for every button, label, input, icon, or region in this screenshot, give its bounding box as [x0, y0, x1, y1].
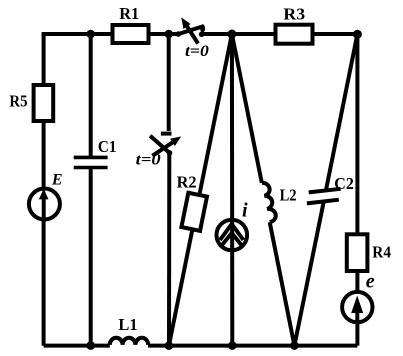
wire R2 diagonal — [169, 34, 232, 346]
svg-text:R1: R1 — [119, 4, 139, 23]
svg-text:R5: R5 — [9, 91, 27, 110]
node dot bottom C1 — [86, 341, 95, 350]
svg-text:R4: R4 — [372, 242, 391, 261]
current source i — [217, 199, 249, 250]
wire C1 branch lower — [89, 168, 93, 346]
wire C2 diagonal upper — [326, 34, 357, 189]
node dot top switch branch — [164, 30, 173, 39]
svg-text:R2: R2 — [177, 173, 197, 192]
svg-text:C1: C1 — [98, 137, 117, 156]
node dot bottom L2/C2 — [290, 341, 299, 350]
source E — [29, 171, 63, 219]
wire top between switch and node A — [202, 32, 278, 36]
wire top left segment — [42, 32, 113, 36]
svg-text:t=0: t=0 — [185, 43, 209, 60]
wire top between R1 and switch — [149, 32, 179, 36]
wire right rail — [355, 34, 359, 346]
resistor R3 — [276, 5, 313, 44]
resistor R4 — [347, 234, 392, 271]
node dot bottom switch/R2 — [165, 341, 174, 350]
svg-text:t=0: t=0 — [136, 152, 161, 169]
node A top middle — [227, 30, 236, 39]
capacitor C1 — [74, 137, 117, 168]
svg-text:e: e — [366, 271, 375, 293]
wire L2 diagonal lower — [270, 222, 295, 345]
svg-text:R3: R3 — [283, 5, 305, 24]
source e — [342, 271, 375, 323]
node dot top C1 — [86, 30, 95, 39]
svg-text:L2: L2 — [280, 186, 297, 205]
wire switch branch lower — [167, 153, 171, 346]
wire C1 branch upper — [89, 34, 93, 157]
wire i branch vertical — [230, 34, 234, 346]
svg-text:i: i — [242, 199, 248, 221]
svg-text:L1: L1 — [118, 315, 137, 334]
wire top between R3 and node B — [313, 32, 358, 36]
inductor L2 — [262, 183, 297, 222]
resistor R5 — [9, 85, 53, 121]
switch SW1 top — [176, 17, 209, 59]
resistor R2 — [181, 193, 207, 231]
resistor R1 — [113, 4, 149, 43]
wire switch branch upper — [167, 34, 171, 131]
svg-text:C2: C2 — [334, 174, 354, 193]
svg-text:E: E — [51, 171, 63, 188]
inductor L1 — [110, 315, 148, 345]
wire L2 diagonal upper — [232, 34, 262, 183]
capacitor C2 — [307, 174, 354, 204]
wire bottom rail right of L1 — [148, 344, 357, 348]
wire left rail — [42, 34, 46, 346]
node B top right — [353, 30, 362, 39]
wire C2 diagonal lower — [294, 200, 324, 345]
switch SW2 middle — [136, 134, 182, 169]
node dot bottom i branch — [228, 341, 237, 350]
wire bottom rail — [44, 344, 110, 348]
